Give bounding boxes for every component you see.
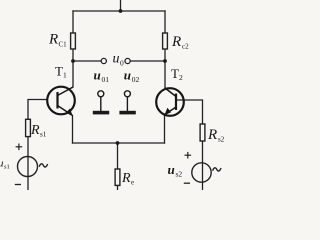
svg-text:R: R (30, 123, 40, 138)
wire right rail mid (164, 49, 166, 61)
svg-text:u: u (168, 162, 175, 177)
source us2 sine (213, 168, 221, 171)
terminal post u01 (93, 91, 109, 115)
wire left rail mid (72, 49, 74, 61)
source us2 plus (185, 152, 192, 159)
resistor Rs1 label (30, 123, 47, 139)
node junction emitter bus (116, 141, 120, 145)
node u01 label (94, 68, 110, 85)
node junction top (119, 9, 123, 13)
source us2 label (168, 162, 183, 179)
resistor Rs1 (26, 119, 31, 136)
wire T1 base (28, 100, 47, 120)
wire Re bottom (117, 185, 119, 190)
resistor RC2 label (171, 34, 189, 51)
wire right collector (164, 61, 166, 88)
source us2 (192, 163, 211, 182)
node u02 label (124, 68, 140, 85)
terminal u01 circle (101, 58, 106, 63)
resistor RC1 label (48, 32, 67, 49)
wire T2 base (177, 100, 203, 124)
wire Rs1 to source (27, 137, 29, 190)
source us1 minus (15, 184, 21, 186)
svg-text:u: u (124, 68, 131, 83)
svg-text:e: e (131, 179, 134, 187)
transistor T2 label (171, 66, 183, 82)
resistor RC2 (163, 33, 168, 49)
transistor T1 label (55, 64, 67, 80)
terminal post u02 (119, 91, 135, 115)
transistor T2 (156, 88, 184, 116)
svg-text:R: R (48, 32, 58, 48)
terminal u02 circle (125, 58, 130, 63)
svg-text:s1: s1 (4, 163, 10, 170)
source us1 plus (16, 144, 23, 151)
wire +Ucc stub (120, 0, 122, 11)
node u0 label (113, 52, 125, 68)
svg-text:0: 0 (120, 59, 124, 68)
source us1 (18, 157, 38, 177)
wire left collector (72, 61, 74, 87)
svg-text:R: R (207, 127, 217, 143)
svg-text:T: T (171, 66, 179, 81)
wire u02 tap (130, 60, 165, 62)
svg-text:s2: s2 (218, 136, 225, 144)
wire Re stem (117, 143, 119, 169)
svg-text:R: R (171, 34, 181, 50)
svg-text:02: 02 (132, 75, 140, 84)
node junction left collector (71, 59, 75, 63)
svg-text:R: R (121, 171, 131, 186)
wire u01 tap (73, 60, 101, 62)
svg-text:u: u (94, 68, 101, 83)
source us1 label (0, 158, 10, 171)
wire top bus (73, 10, 165, 12)
resistor Rs2 (200, 124, 205, 141)
svg-text:s1: s1 (40, 131, 47, 139)
transistor T1 (47, 87, 75, 117)
node junction right collector (163, 59, 167, 63)
wire emitter bus (73, 142, 165, 144)
resistor RC1 (71, 33, 76, 49)
resistor Re label (121, 171, 134, 187)
source us2 minus (184, 182, 190, 184)
svg-text:C1: C1 (59, 41, 68, 49)
svg-text:u: u (113, 52, 120, 67)
svg-text:1: 1 (63, 71, 67, 80)
source us1 sine (39, 164, 47, 167)
svg-text:s2: s2 (176, 170, 183, 179)
resistor Rs2 label (207, 127, 225, 144)
svg-text:01: 01 (102, 75, 110, 84)
svg-text:2: 2 (179, 73, 183, 82)
wire T1 emitter down (72, 116, 74, 144)
wire Rs2 to source (202, 141, 204, 190)
resistor Re (115, 169, 120, 185)
wire right rail upper (164, 11, 166, 33)
svg-text:c2: c2 (182, 43, 189, 51)
svg-text:T: T (55, 64, 63, 79)
wire left rail upper (72, 11, 74, 33)
wire T2 emitter down (164, 115, 166, 143)
